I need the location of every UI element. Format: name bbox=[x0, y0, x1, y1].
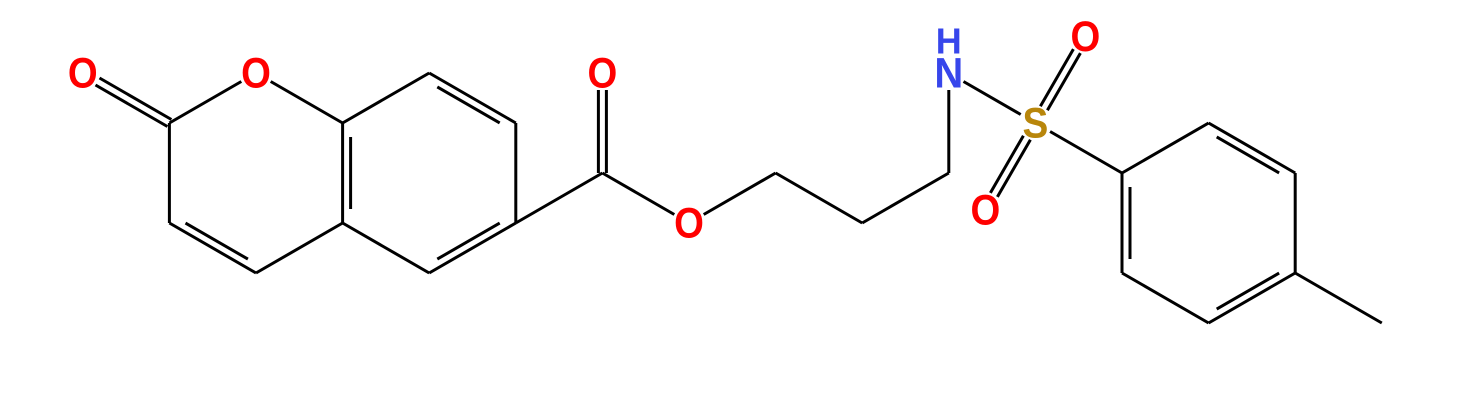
svg-text:S: S bbox=[1022, 99, 1048, 147]
svg-text:H: H bbox=[936, 21, 962, 62]
svg-text:O: O bbox=[971, 185, 1001, 234]
svg-text:O: O bbox=[588, 49, 618, 98]
svg-text:O: O bbox=[674, 199, 704, 248]
svg-text:O: O bbox=[68, 49, 98, 98]
svg-text:O: O bbox=[1071, 12, 1101, 61]
svg-text:O: O bbox=[241, 49, 271, 98]
